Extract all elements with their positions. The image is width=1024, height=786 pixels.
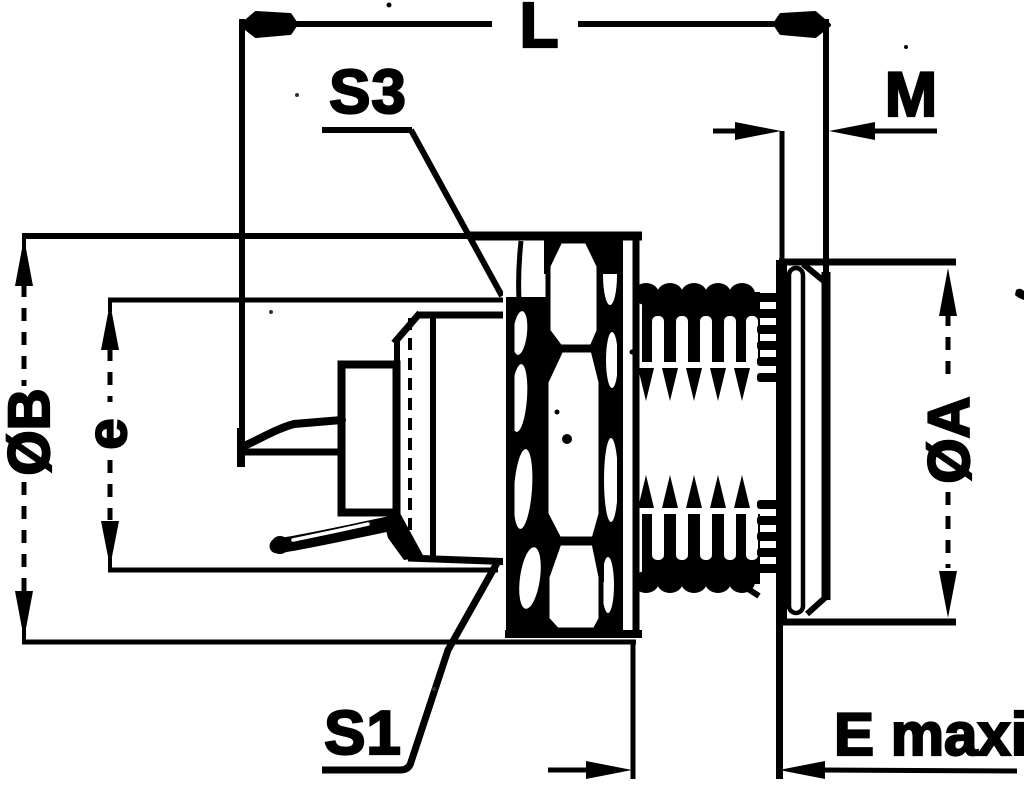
upper contact blade <box>244 420 342 446</box>
nut center facet bottom <box>547 543 601 630</box>
scan speck <box>387 3 392 8</box>
nut speck dot 3 <box>555 410 560 415</box>
lower contact leaf slit <box>293 524 368 540</box>
scan speck <box>432 687 436 691</box>
nut center facet middle <box>546 350 601 539</box>
thread bottom band <box>633 475 760 593</box>
left facet highlight 4 <box>511 448 535 529</box>
L left extension line <box>239 19 245 466</box>
svg-text:E maxi: E maxi <box>834 701 1024 768</box>
flange main vertical (M extension + left face + E extension) <box>780 131 785 270</box>
svg-text:ØB: ØB <box>0 389 62 476</box>
E maxi right arrowhead <box>779 761 825 779</box>
flange right face <box>822 272 831 600</box>
nut speck dot 2 <box>562 434 572 444</box>
OB bottom extension line <box>22 640 636 645</box>
flange left face <box>776 260 787 620</box>
S1 leader underline <box>322 563 497 770</box>
hex nut base <box>503 233 643 635</box>
nut left facet column <box>506 297 548 630</box>
plug block outline <box>342 365 397 513</box>
nut right facet column <box>598 240 622 630</box>
thread top band <box>633 283 760 401</box>
M left arrowhead <box>735 122 781 140</box>
OA top extension line <box>779 259 956 266</box>
E maxi left arrowhead <box>586 761 632 779</box>
right facet highlight 1 <box>603 245 617 305</box>
L left arrowhead <box>242 13 296 36</box>
L right arrowhead <box>775 13 829 36</box>
flange inner contour <box>789 268 803 613</box>
nut facet junction fills <box>544 238 622 274</box>
left facet highlight 2 <box>511 310 530 355</box>
scan edge fragment <box>1015 289 1024 300</box>
E maxi left extension line <box>631 641 636 779</box>
thread runout serrations top <box>757 293 779 382</box>
nut bottom edge <box>505 630 642 638</box>
lower contact leaf <box>277 523 393 546</box>
OB top extension line <box>22 233 510 239</box>
body top edge <box>417 312 517 319</box>
washer line 1 <box>617 240 623 630</box>
washer line 2 <box>633 240 640 632</box>
E maxi dimension line <box>548 770 1017 771</box>
svg-text:S3: S3 <box>329 58 407 127</box>
e top extension line <box>108 298 505 303</box>
body left edge <box>394 339 400 529</box>
nut speck dot 1 <box>520 433 528 441</box>
nut left face <box>508 297 515 560</box>
scan speck <box>630 350 635 355</box>
nut top edge <box>470 232 642 241</box>
svg-text:L: L <box>519 0 558 61</box>
flange top-right chamfer <box>803 264 825 282</box>
upper contact tip bar <box>237 428 245 467</box>
left facet highlight 5 <box>516 546 544 610</box>
e up arrowhead <box>101 303 119 350</box>
right facet highlight 4 <box>602 557 614 613</box>
OA bottom extension line <box>776 619 956 626</box>
e bottom extension line <box>108 568 498 573</box>
body inner contour <box>430 316 436 558</box>
nut left facet edge curve <box>519 241 521 300</box>
body inner contour dashed <box>408 318 412 555</box>
flange lower extension vertical <box>776 616 783 779</box>
thread bottom corner diagonal <box>731 578 759 596</box>
OA dimension line <box>946 313 951 568</box>
OB up arrowhead <box>15 238 33 286</box>
OB down arrowhead <box>15 591 33 639</box>
dimension M <box>713 129 937 134</box>
plug block fill <box>338 361 400 516</box>
OA up arrowhead <box>939 268 957 316</box>
right facet highlight 2 <box>606 332 618 388</box>
body bottom edge <box>408 558 517 562</box>
M right arrowhead <box>829 122 875 140</box>
upper contact lower finger <box>243 449 340 456</box>
nut center facet top <box>548 241 599 347</box>
connector body fill <box>396 313 516 561</box>
e dimension line <box>108 300 112 570</box>
svg-text:ØA: ØA <box>917 397 982 484</box>
scan speck <box>904 45 908 49</box>
OB dimension line <box>22 236 26 641</box>
svg-text:S1: S1 <box>324 699 402 768</box>
flange bottom-right chamfer <box>807 596 827 614</box>
body corner mass at leaf root <box>383 513 424 560</box>
scan speck <box>295 93 299 97</box>
left facet highlight 3 <box>509 364 530 433</box>
OA down arrowhead <box>939 571 957 618</box>
body right edge <box>510 313 519 562</box>
body top-left chamfer <box>394 313 420 343</box>
S3 leader diagonal <box>411 130 502 296</box>
svg-text:e: e <box>75 418 138 449</box>
thread runout serrations bottom <box>757 500 779 573</box>
svg-text:M: M <box>885 60 937 130</box>
S3 leader underline <box>322 127 412 133</box>
scan speck <box>269 310 273 314</box>
right facet highlight 3 <box>604 438 618 522</box>
body bottom-left chamfer <box>395 525 414 559</box>
dimension L line <box>247 21 824 27</box>
e down arrowhead <box>101 521 119 567</box>
L right extension line <box>823 19 829 274</box>
